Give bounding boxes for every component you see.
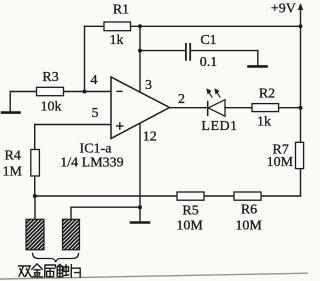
svg-text:3: 3: [145, 78, 152, 93]
svg-text:+9V: +9V: [271, 2, 296, 17]
svg-text:10M: 10M: [176, 219, 203, 234]
svg-text:10M: 10M: [235, 219, 262, 234]
svg-text:R1: R1: [113, 2, 129, 17]
svg-text:R3: R3: [42, 70, 58, 85]
svg-text:10M: 10M: [267, 155, 294, 170]
svg-text:IC1-a: IC1-a: [80, 142, 113, 157]
svg-text:R6: R6: [241, 203, 257, 218]
svg-text:10k: 10k: [41, 100, 62, 115]
svg-text:1M: 1M: [3, 164, 23, 179]
svg-text:C1: C1: [200, 33, 216, 48]
svg-text:R2: R2: [259, 87, 275, 102]
svg-text:1/4 LM339: 1/4 LM339: [60, 156, 123, 171]
svg-text:2: 2: [178, 92, 185, 107]
svg-text:5: 5: [92, 106, 99, 121]
svg-text:4: 4: [91, 73, 98, 88]
svg-text:1k: 1k: [110, 33, 124, 48]
svg-text:R5: R5: [182, 203, 198, 218]
svg-text:LED1: LED1: [201, 119, 237, 134]
svg-text:12: 12: [143, 130, 157, 145]
svg-text:0.1: 0.1: [200, 55, 218, 70]
svg-text:1k: 1k: [257, 114, 271, 129]
svg-text:R4: R4: [5, 148, 21, 163]
